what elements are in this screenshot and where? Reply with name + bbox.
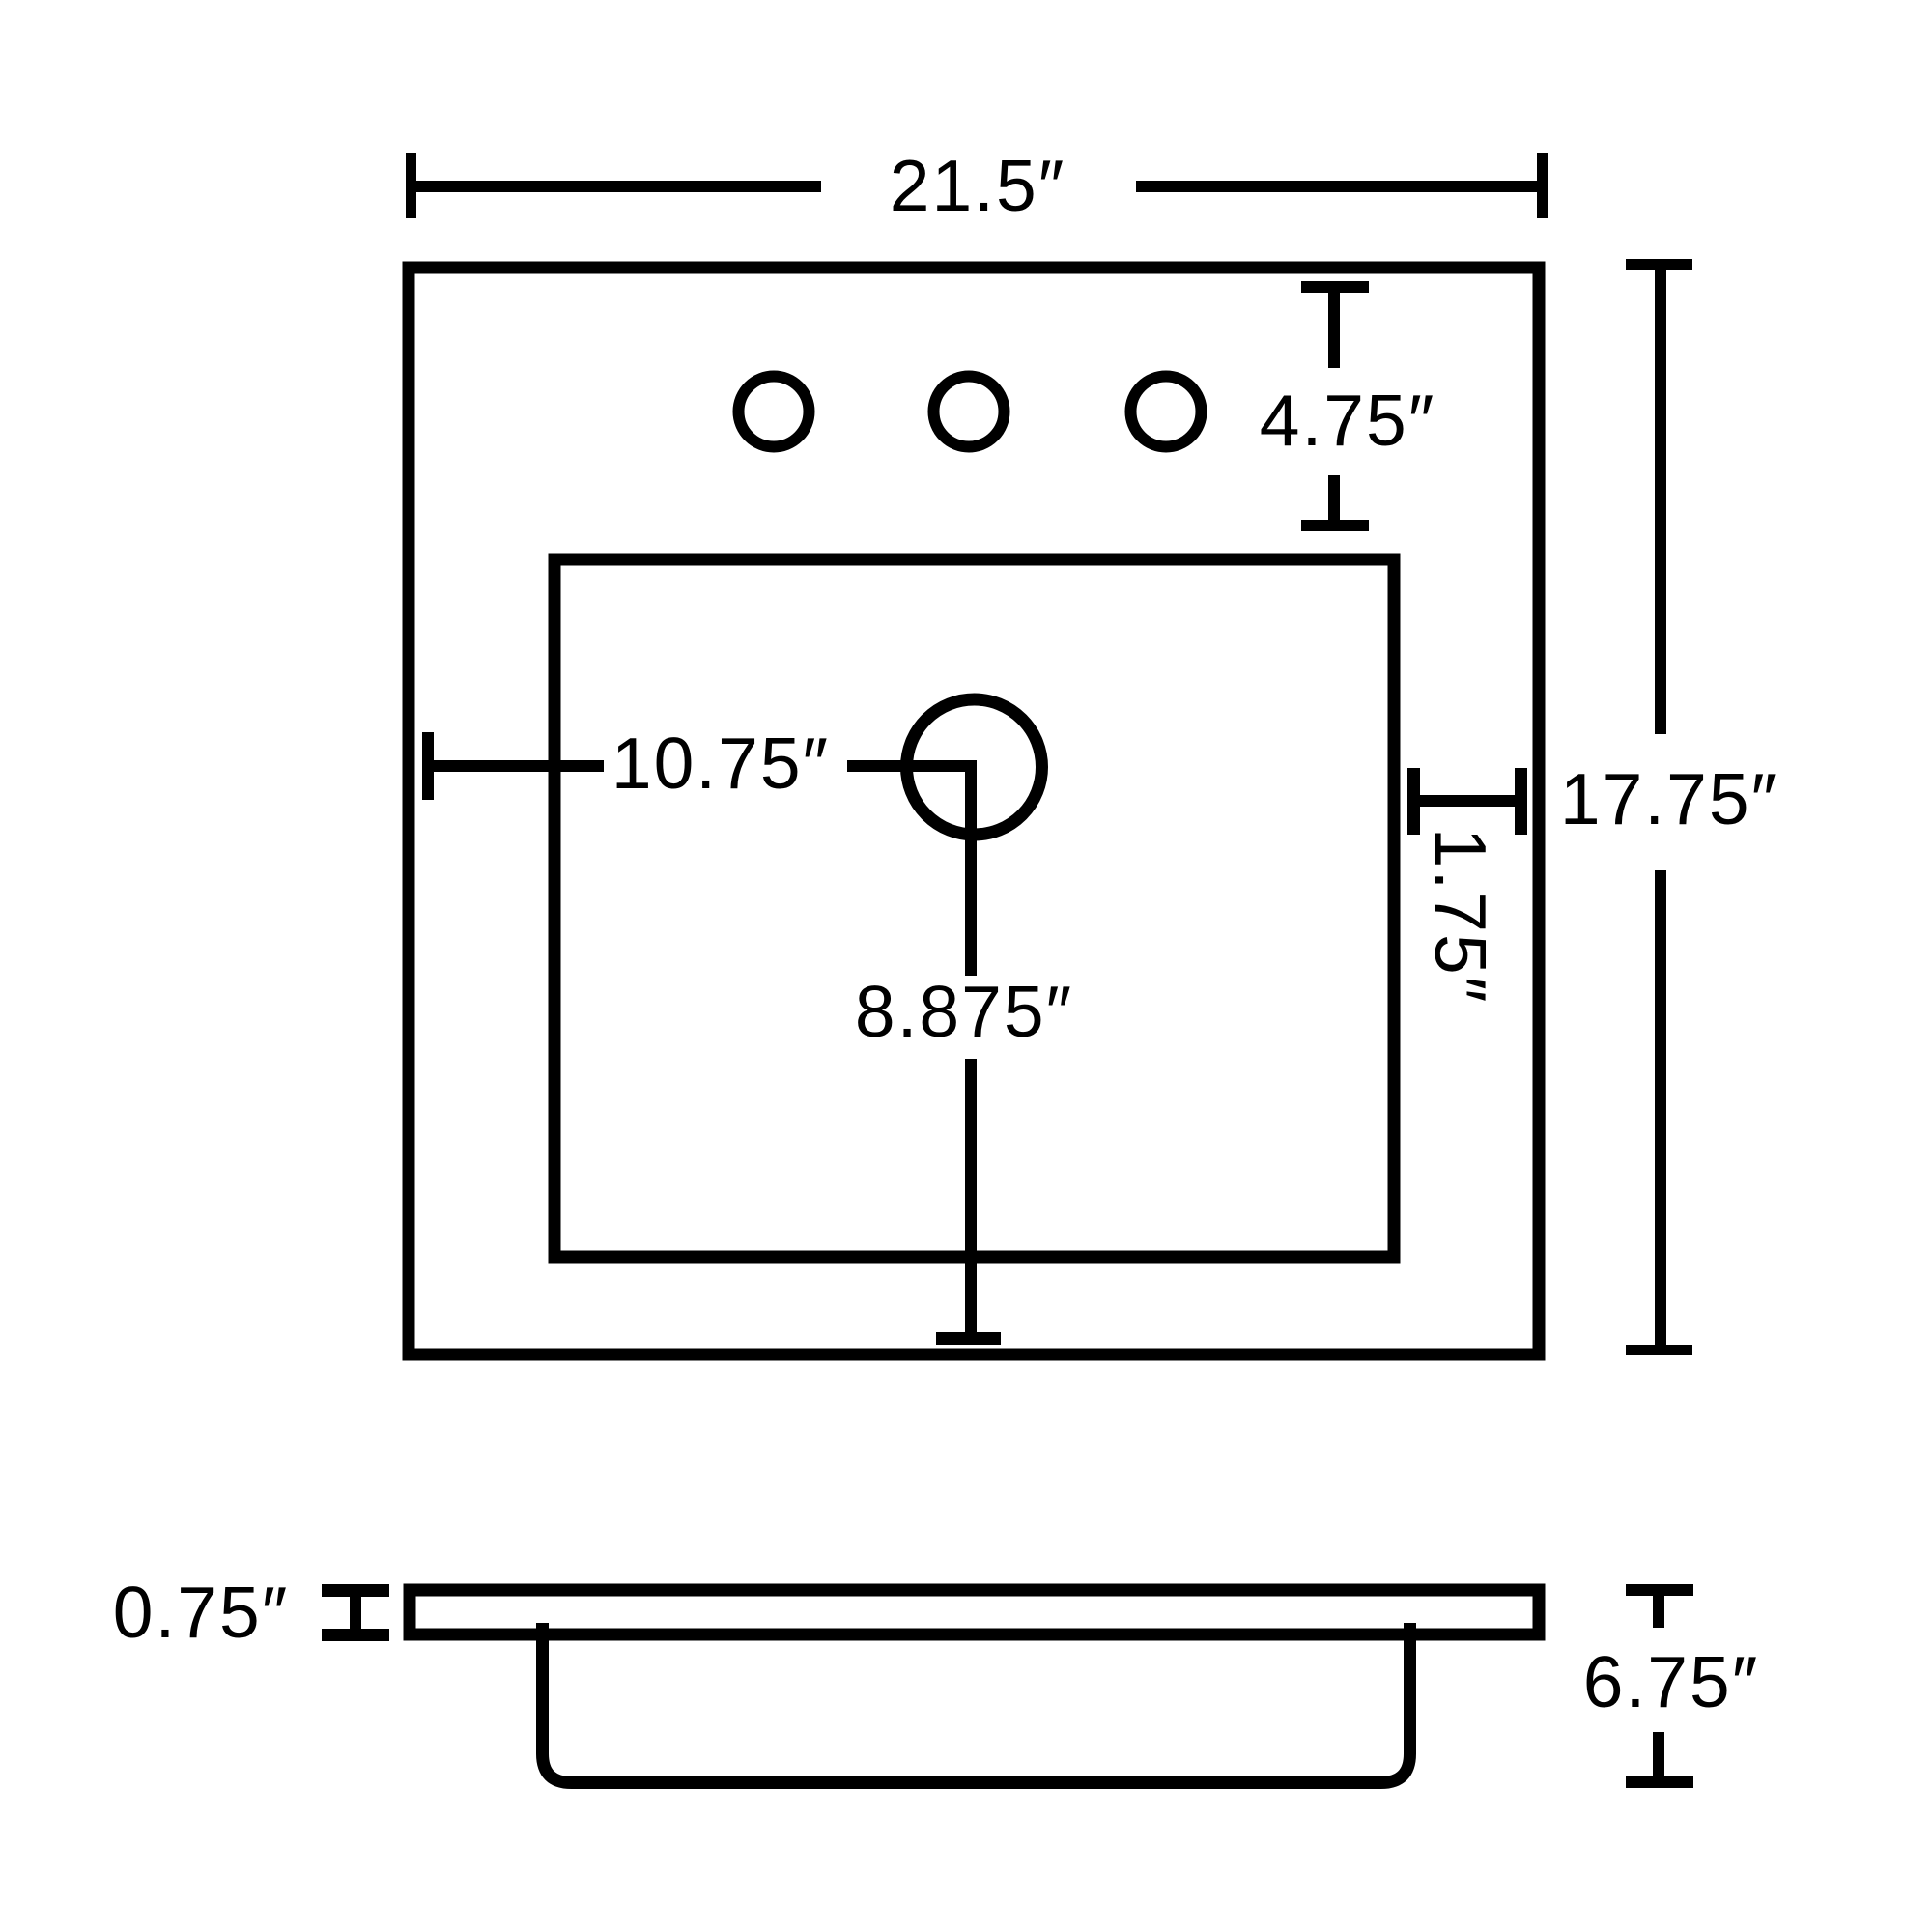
- drain hole circle: [907, 699, 1042, 835]
- basin opening rectangle (top view): [554, 559, 1394, 1257]
- svg-text:17.75″: 17.75″: [1560, 758, 1778, 839]
- dimension 4.75in line lower segment: [1328, 475, 1340, 520]
- dimension 21.5in right tick: [1537, 153, 1548, 218]
- dimension 0.75in bottom tick: [322, 1629, 389, 1641]
- dimension 17.75in line upper segment: [1655, 270, 1666, 734]
- dimension 1.75in line: [1413, 795, 1520, 807]
- svg-text:8.875″: 8.875″: [855, 971, 1073, 1052]
- basin bowl (side view): [543, 1623, 1410, 1783]
- dimension 10.75in left tick: [422, 732, 434, 800]
- svg-text:10.75″: 10.75″: [611, 723, 830, 804]
- dimension 17.75in line lower segment: [1655, 870, 1666, 1345]
- dimension 17.75in bottom tick: [1626, 1345, 1692, 1355]
- dimension 21.5in line left segment: [411, 181, 821, 192]
- faucet hole left: [739, 377, 810, 447]
- dimension 17.75in top tick: [1626, 259, 1692, 270]
- dimension 8.875in line upper segment: [965, 760, 977, 976]
- countertop slab (side view): [410, 1590, 1539, 1634]
- dimension 8.875in line lower segment: [965, 1059, 977, 1332]
- dimension 4.75in top tick: [1301, 281, 1369, 293]
- dimension 10.75in line right segment: [847, 760, 977, 772]
- dimension 1.75in left tick: [1407, 768, 1420, 835]
- sink outer rim (top view): [409, 268, 1539, 1354]
- svg-text:1.75″: 1.75″: [1420, 828, 1501, 1005]
- dimension 8.875in bottom tick: [936, 1332, 1001, 1345]
- faucet hole right: [1131, 377, 1202, 447]
- dimension 1.75in right tick: [1515, 768, 1527, 835]
- dimension 6.75in bottom tick: [1626, 1776, 1693, 1788]
- dimension 0.75in top tick: [322, 1584, 389, 1597]
- dimension 6.75in line lower segment: [1653, 1732, 1664, 1776]
- faucet hole center: [934, 377, 1005, 447]
- dimension 6.75in top tick: [1626, 1584, 1693, 1596]
- svg-text:6.75″: 6.75″: [1583, 1641, 1760, 1722]
- dimension 10.75in line left segment: [428, 760, 604, 772]
- dimension 6.75in line upper segment: [1653, 1596, 1664, 1628]
- svg-text:4.75″: 4.75″: [1260, 380, 1436, 461]
- dimension 21.5in left tick: [406, 153, 416, 218]
- dimension 4.75in bottom tick: [1301, 520, 1369, 531]
- dimension 4.75in line upper segment: [1328, 293, 1340, 368]
- svg-text:0.75″: 0.75″: [113, 1572, 290, 1653]
- dimension 21.5in line right segment: [1136, 181, 1543, 192]
- dimension 0.75in line: [350, 1596, 361, 1629]
- svg-text:21.5″: 21.5″: [890, 145, 1066, 226]
